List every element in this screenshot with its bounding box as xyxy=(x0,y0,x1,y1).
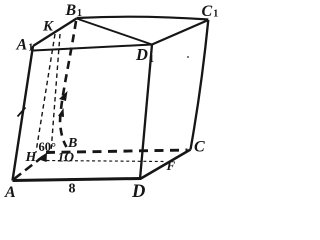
edge A-D (bottom front) xyxy=(13,179,142,181)
svg-text:1: 1 xyxy=(213,9,218,20)
svg-text:C: C xyxy=(194,139,205,156)
edge D-C xyxy=(140,150,191,180)
svg-text:A: A xyxy=(4,184,16,200)
segment H-F (fine dotted) xyxy=(47,161,165,162)
diagonal B1-D1 xyxy=(77,19,153,45)
edge A-A1 xyxy=(13,46,34,181)
hidden edge A-B (heavy dashed) xyxy=(14,157,43,180)
svg-text:H: H xyxy=(25,150,38,165)
hidden edge B-C (heavy dashed) xyxy=(46,150,188,153)
svg-text:1: 1 xyxy=(28,43,33,54)
edge D-D1 xyxy=(140,45,152,180)
tick mark on edge A-A1 xyxy=(18,108,26,117)
arrow mark on B1-B (lower) xyxy=(58,108,64,117)
svg-text:F: F xyxy=(166,158,176,173)
svg-text:8: 8 xyxy=(69,182,76,197)
scan speck xyxy=(187,56,189,58)
svg-text:A: A xyxy=(16,37,28,54)
svg-text:1: 1 xyxy=(149,54,154,65)
svg-text:B: B xyxy=(65,2,77,19)
edge A1-D1 xyxy=(34,45,153,51)
edge A1-B1 xyxy=(33,19,77,47)
lateral edge B1-B (hidden, heavy dashed) xyxy=(60,21,76,147)
svg-text:60°: 60° xyxy=(39,140,57,154)
segment K-O (fine dashed) xyxy=(51,34,60,152)
svg-text:D: D xyxy=(131,182,145,200)
svg-text:K: K xyxy=(42,19,54,35)
edge B1-C1 (top) xyxy=(77,17,209,20)
svg-text:1O: 1O xyxy=(58,150,75,165)
edge C-C1 xyxy=(191,20,209,150)
svg-text:1: 1 xyxy=(77,8,82,19)
right-angle mark at H xyxy=(38,153,48,163)
svg-text:D: D xyxy=(135,45,148,64)
arrow mark on B1-B (upper) xyxy=(59,91,68,101)
segment K-H (fine dashed) xyxy=(36,34,55,152)
edge D1-C1 xyxy=(152,20,208,45)
svg-text:C: C xyxy=(202,3,213,20)
